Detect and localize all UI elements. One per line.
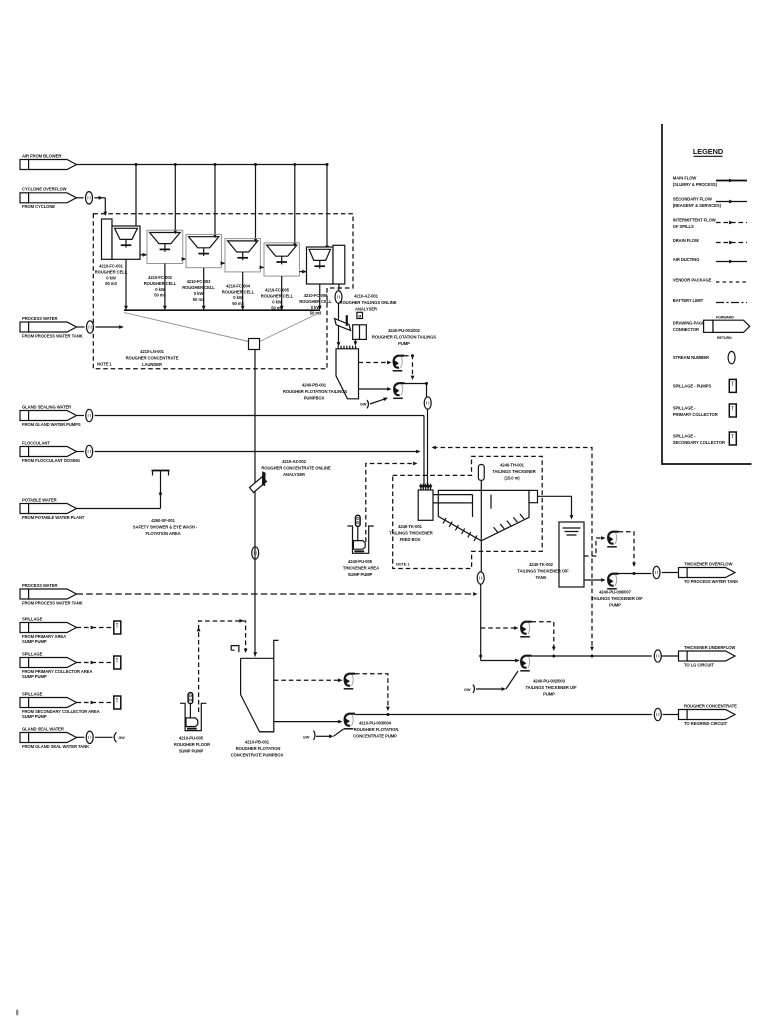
- svg-text:BATTERY LIMIT: BATTERY LIMIT: [673, 298, 704, 303]
- svg-text:FROM POTABLE WATER PLANT: FROM POTABLE WATER PLANT: [22, 515, 85, 520]
- label: pumpbox 4210-PB-001: [231, 740, 284, 758]
- svg-text:SPILLAGE - PUMPS: SPILLAGE - PUMPS: [673, 384, 712, 389]
- svg-text:FLOCCULANT: FLOCCULANT: [22, 440, 50, 445]
- svg-text:FLOTATION AREA: FLOTATION AREA: [145, 531, 180, 536]
- svg-text:PUMP: PUMP: [609, 603, 621, 608]
- tank: thickener O/F tank 4240-TK-002: [559, 522, 584, 587]
- svg-text:CONCENTRATE PUMP: CONCENTRATE PUMP: [353, 734, 397, 739]
- flotation cell 4210-FC-003: [186, 234, 221, 267]
- svg-text:GW: GW: [303, 736, 310, 740]
- svg-text:TO REGRIND CIRCUIT: TO REGRIND CIRCUIT: [684, 721, 727, 726]
- svg-text:ROUGHER CONCENTRATE: ROUGHER CONCENTRATE: [684, 703, 737, 708]
- analyser 4210-AZ-001 sampler: [335, 312, 367, 346]
- svg-text:FEED BOX: FEED BOX: [400, 537, 421, 542]
- svg-text:4240-TH-001: 4240-TH-001: [500, 463, 525, 468]
- flotation cell 4210-FC-006: [307, 247, 334, 284]
- wire: cyclone overflow to rougher feed box: [77, 192, 108, 216]
- tank: pumpbox 4240-PB-001: [336, 346, 359, 399]
- svg-text:50 m3: 50 m3: [105, 281, 117, 286]
- svg-text:FROM GLAND WATER PUMPS: FROM GLAND WATER PUMPS: [22, 422, 81, 427]
- legend row: stream number: [673, 351, 735, 363]
- svg-text:NOTE 1: NOTE 1: [97, 362, 112, 367]
- label: analyser 4210-AZ-001: [340, 294, 397, 312]
- svg-text:ROUGHER FLOTATION: ROUGHER FLOTATION: [354, 727, 399, 732]
- page connector flag: spillage 2: [20, 651, 92, 679]
- wire: air header from blower: [77, 163, 329, 250]
- page connector flag: process water 2: [20, 583, 83, 606]
- wire: cell concentrate drops to launder: [124, 259, 322, 310]
- thickener drive motor and shaft: [478, 465, 484, 541]
- wire: spillage dashed line 2: [77, 656, 121, 669]
- page connector flag: flocculant: [20, 440, 80, 463]
- page connector flag: thickener underflow out: [679, 645, 736, 668]
- svg-text:4210-FC-004: 4210-FC-004: [226, 283, 251, 288]
- vendor package dashed boundary (flotation cells): [93, 214, 353, 369]
- page connector flag: cyclone overflow: [20, 187, 77, 210]
- svg-text:LAUNDER: LAUNDER: [142, 362, 162, 367]
- svg-text:4210-PU-003/004: 4210-PU-003/004: [359, 721, 392, 726]
- svg-text:ANALYSER: ANALYSER: [355, 307, 377, 312]
- tank: thickener feed box 4240-TK-001: [418, 484, 433, 521]
- svg-text:50 m3: 50 m3: [232, 301, 244, 306]
- label: O/F tank 4240-TK-002: [517, 562, 569, 580]
- tank: cell FC-006 discharge box: [333, 245, 345, 284]
- launder 4210-LN-001 collection header: [124, 310, 320, 349]
- svg-text:4240-TK-001: 4240-TK-001: [398, 524, 423, 529]
- svg-text:4210-LN-001: 4210-LN-001: [140, 349, 165, 354]
- svg-text:4240-PB-001: 4240-PB-001: [302, 383, 327, 388]
- svg-text:4260-SF-001: 4260-SF-001: [151, 518, 175, 523]
- sump pump 4240-PU-005 (thickener area): [347, 515, 373, 553]
- legend row: spillage pumps: [673, 379, 737, 392]
- svg-text:GLAND SEALING WATER: GLAND SEALING WATER: [22, 404, 71, 409]
- wire: thickener underflow leg: [477, 541, 519, 661]
- wire: spillage dashed line 3: [77, 696, 121, 709]
- scan speck bottom left: [16, 1010, 18, 1016]
- stream circle on concentrate line: [252, 547, 259, 559]
- svg-text:MAIN FLOW: MAIN FLOW: [673, 176, 697, 181]
- legend row: drawing page connector: [673, 316, 750, 340]
- wire: air drops into cells: [134, 165, 297, 247]
- svg-text:PROCESS WATER: PROCESS WATER: [22, 316, 57, 321]
- svg-text:DRAWING PAGE: DRAWING PAGE: [673, 321, 705, 326]
- svg-text:RETURN: RETURN: [717, 336, 732, 340]
- legend row: intermittent flow: [673, 218, 747, 230]
- svg-text:TO PROCESS WATER TANK: TO PROCESS WATER TANK: [684, 579, 738, 584]
- page connector flag: rougher concentrate out: [679, 703, 738, 726]
- pump 4210-PU-004 standby (dashed): [274, 674, 390, 711]
- svg-text:4210-PB-001: 4210-PB-001: [245, 740, 270, 745]
- svg-text:4210-FC-002: 4210-FC-002: [148, 275, 173, 280]
- svg-text:ROUGHER CELL: ROUGHER CELL: [261, 294, 294, 299]
- svg-text:4210-FC-006: 4210-FC-006: [304, 293, 329, 298]
- legend row: drain flow: [673, 238, 747, 244]
- wire: thickener overflow to O/F tank: [538, 496, 574, 519]
- wire: floor sump spill dashed to pumpbox: [197, 619, 248, 712]
- page connector flag: process water 1: [20, 316, 83, 339]
- svg-text:4240-PU-006/007: 4240-PU-006/007: [599, 590, 632, 595]
- wire: spillage dashed line 1: [77, 621, 121, 634]
- wire: gland seal water distribution: [77, 731, 126, 743]
- label: launder 4210-LN-001: [126, 349, 179, 367]
- page connector flag: potable water: [20, 497, 85, 520]
- svg-text:TAILINGS THICKENER U/F: TAILINGS THICKENER U/F: [526, 685, 577, 690]
- svg-text:ROUGHER FLOTATION TAILINGS: ROUGHER FLOTATION TAILINGS: [283, 389, 348, 394]
- svg-text:ROUGHER CONCENTRATE ONLINE: ROUGHER CONCENTRATE ONLINE: [261, 466, 331, 471]
- svg-text:THICKENER AREA: THICKENER AREA: [343, 566, 379, 571]
- page connector flag: spillage 3: [20, 691, 100, 719]
- svg-text:SECONDARY COLLECTOR: SECONDARY COLLECTOR: [673, 440, 725, 445]
- flotation cell 4210-FC-002: [147, 230, 183, 263]
- svg-text:4240-PU-002/003: 4240-PU-002/003: [533, 679, 566, 684]
- svg-text:PUMPBOX: PUMPBOX: [304, 396, 325, 401]
- svg-text:FROM CYCLONE: FROM CYCLONE: [22, 204, 55, 209]
- label: safety shower 4260-SF-001: [133, 518, 198, 536]
- label: cell 4210-FC-004: [222, 283, 255, 306]
- label: sump pump 4240-PU-005: [343, 559, 379, 577]
- page connector flag: gland sealing water: [20, 404, 81, 427]
- svg-text:SPILLAGE -: SPILLAGE -: [673, 406, 696, 411]
- svg-text:CONCENTRATE PUMPBOX: CONCENTRATE PUMPBOX: [231, 753, 284, 758]
- svg-text:AIR DUCTING: AIR DUCTING: [673, 257, 700, 262]
- label: cell 4210-FC-003: [182, 279, 215, 302]
- svg-text:ROUGHER CELL: ROUGHER CELL: [299, 299, 332, 304]
- gland water stub at U/F pump: [464, 671, 518, 693]
- vendor package dashed boundary (thickener): [393, 456, 543, 568]
- label: thickener 4240-TH-001: [492, 463, 535, 481]
- svg-text:4240-PU-001/002: 4240-PU-001/002: [388, 328, 421, 333]
- legend row: spillage secondary collector: [673, 432, 737, 445]
- label: pumpbox 4240-PB-001: [283, 383, 348, 401]
- wire: process water flush (dashed) to thickener underflow: [77, 592, 478, 596]
- svg-text:0 kW: 0 kW: [311, 305, 321, 310]
- svg-text:ROUGHER FLOTATION: ROUGHER FLOTATION: [236, 746, 281, 751]
- svg-text:SUMP PUMP: SUMP PUMP: [22, 674, 47, 679]
- pump 4240-PU-003 standby (dashed): [481, 622, 556, 651]
- page connector flag: thickener overflow out: [679, 561, 739, 584]
- wire: cell 6 tailings to analyser/pumpbox: [335, 284, 342, 347]
- svg-text:SPILLAGE: SPILLAGE: [22, 691, 43, 696]
- label: pumps 4240-PU-006/007: [591, 590, 643, 608]
- svg-text:M: M: [358, 314, 361, 318]
- wire: cell-to-cell flow arrows: [140, 253, 307, 274]
- wire: concentrate discharge to flag: [654, 708, 678, 720]
- svg-text:TO LG CIRCUIT: TO LG CIRCUIT: [684, 662, 714, 667]
- pump 4240-PU-007 standby (dashed): [584, 532, 636, 567]
- svg-text:ROUGHER FLOOR: ROUGHER FLOOR: [174, 742, 210, 747]
- wire: gland sealing water long header: [77, 409, 425, 487]
- svg-text:ROUGHER CELL: ROUGHER CELL: [95, 269, 128, 274]
- label: cell 4210-FC-006: [299, 293, 332, 316]
- svg-text:SUMP PUMP: SUMP PUMP: [22, 714, 47, 719]
- pump 4240-PU-001 duty: [359, 382, 432, 487]
- svg-text:4210-FC-003: 4210-FC-003: [187, 279, 212, 284]
- label: cell 4210-FC-001: [95, 264, 128, 287]
- svg-text:SECONDARY FLOW: SECONDARY FLOW: [673, 197, 712, 202]
- svg-text:FROM FLOCCULANT DOSING: FROM FLOCCULANT DOSING: [22, 458, 80, 463]
- svg-text:4210-AZ-002: 4210-AZ-002: [282, 459, 307, 464]
- svg-text:TANK: TANK: [536, 575, 547, 580]
- label: cell 4210-FC-002: [144, 275, 177, 298]
- label: sump pump 4210-PU-005: [174, 736, 210, 754]
- page connector flag: air from blower: [20, 153, 77, 169]
- wire: flocculant line to thickener: [77, 445, 421, 457]
- sump pump 4210-PU-005 (flotation area): [180, 693, 206, 731]
- label: pumps 4240-PU-001/002: [372, 328, 437, 346]
- flotation cell 4210-FC-001: [112, 226, 140, 259]
- svg-text:0 kW: 0 kW: [106, 275, 116, 280]
- analyser 4210-AZ-002 on concentrate line: [250, 471, 267, 492]
- wire: dilution recycle dashed line: [432, 446, 594, 651]
- tank: concentrate pumpbox 4210-PB-001: [241, 640, 279, 731]
- svg-text:POTABLE WATER: POTABLE WATER: [22, 497, 57, 502]
- svg-text:SAFETY SHOWER & EYE WASH -: SAFETY SHOWER & EYE WASH -: [133, 525, 198, 530]
- svg-text:CYCLONE OVERFLOW: CYCLONE OVERFLOW: [22, 187, 67, 192]
- svg-text:ROUGHER CONCENTRATE: ROUGHER CONCENTRATE: [126, 356, 179, 361]
- thickener overflow launder box: [529, 490, 538, 502]
- label: feed box 4240-TK-001: [389, 524, 432, 542]
- wire: overflow discharge to flag: [653, 566, 679, 578]
- label: cell 4210-FC-005: [261, 288, 294, 311]
- wire: underflow to flag: [654, 650, 678, 662]
- spill line from sump to thickener feed (dashed): [366, 462, 418, 542]
- thickener 4240-TH-001 tank body: [438, 490, 529, 541]
- svg-text:(REAGENT & SERVICES): (REAGENT & SERVICES): [673, 203, 722, 208]
- svg-text:FORWARD: FORWARD: [716, 316, 734, 320]
- pump 4240-PU-006 duty: [584, 572, 651, 589]
- svg-text:AIR FROM BLOWER: AIR FROM BLOWER: [22, 153, 61, 158]
- page connector flag: gland seal water: [20, 726, 89, 749]
- svg-text:SPILLAGE: SPILLAGE: [22, 651, 43, 656]
- label: analyser 4210-AZ-002: [261, 459, 331, 477]
- svg-text:50 m3: 50 m3: [193, 297, 205, 302]
- svg-text:THICKENER UNDERFLOW: THICKENER UNDERFLOW: [684, 645, 735, 650]
- svg-text:ROUGHER TAILINGS ONLINE: ROUGHER TAILINGS ONLINE: [340, 300, 397, 305]
- svg-text:TAILINGS THICKENER: TAILINGS THICKENER: [389, 531, 432, 536]
- svg-text:SUMP PUMP: SUMP PUMP: [22, 639, 47, 644]
- svg-text:PUMP: PUMP: [543, 692, 555, 697]
- svg-text:CONNECTOR: CONNECTOR: [673, 327, 699, 332]
- svg-text:FROM PROCESS WATER TANK: FROM PROCESS WATER TANK: [22, 333, 83, 338]
- legend box border: [662, 124, 752, 464]
- svg-text:TAILINGS THICKENER O/F: TAILINGS THICKENER O/F: [517, 569, 569, 574]
- thickener bridge and rake shafts: [433, 495, 491, 517]
- wire: rougher concentrate down-leg to pumpbox: [253, 350, 257, 657]
- svg-text:FROM GLAND SEAL WATER TANK: FROM GLAND SEAL WATER TANK: [22, 744, 89, 749]
- flotation cell 4210-FC-004: [225, 239, 260, 272]
- svg-text:4210-AZ-001: 4210-AZ-001: [354, 294, 379, 299]
- svg-text:4210-FC-001: 4210-FC-001: [99, 264, 124, 269]
- svg-text:LEGEND: LEGEND: [693, 147, 724, 156]
- svg-text:GW: GW: [119, 736, 126, 740]
- svg-text:ROUGHER CELL: ROUGHER CELL: [182, 285, 215, 290]
- pump 4240-PU-002 duty: [515, 655, 652, 671]
- gland water stub at concentrate pump: [303, 729, 344, 740]
- svg-text:SPILLAGE -: SPILLAGE -: [673, 434, 696, 439]
- svg-text:PUMP: PUMP: [398, 341, 410, 346]
- svg-text:INTERMITTENT FLOW: INTERMITTENT FLOW: [673, 218, 716, 223]
- vent gooseneck on pumpbox: [231, 646, 239, 653]
- svg-text:0 kW: 0 kW: [194, 291, 204, 296]
- svg-text:4240-TK-002: 4240-TK-002: [529, 562, 554, 567]
- svg-text:ROUGHER FLOTATION TAILINGS: ROUGHER FLOTATION TAILINGS: [372, 335, 437, 340]
- svg-text:TAILINGS THICKENER O/F: TAILINGS THICKENER O/F: [591, 596, 643, 601]
- svg-text:FROM PROCESS WATER TANK: FROM PROCESS WATER TANK: [22, 600, 83, 605]
- label: pumps 4210-PU-003/004: [353, 721, 398, 739]
- svg-text:ROUGHER CELL: ROUGHER CELL: [144, 281, 177, 286]
- svg-text:PROCESS WATER: PROCESS WATER: [22, 583, 57, 588]
- legend row: vendor package: [673, 278, 747, 283]
- gland water stub at tailings pump: [360, 396, 389, 408]
- svg-text:OF SPILLS: OF SPILLS: [673, 224, 694, 229]
- svg-text:4210-FC-005: 4210-FC-005: [265, 288, 290, 293]
- svg-text:SUMP PUMP: SUMP PUMP: [348, 572, 373, 577]
- svg-text:TAILINGS THICKENER: TAILINGS THICKENER: [492, 469, 535, 474]
- safety shower 4260-SF-001: [77, 471, 170, 509]
- svg-text:ROUGHER CELL: ROUGHER CELL: [222, 289, 255, 294]
- legend row: main flow: [673, 176, 747, 188]
- svg-text:(SLURRY & PROCESS): (SLURRY & PROCESS): [673, 182, 718, 187]
- svg-text:0 kW: 0 kW: [155, 287, 165, 292]
- svg-text:4210-PU-005: 4210-PU-005: [179, 736, 204, 741]
- pump 4210-PU-003 duty: [274, 713, 652, 729]
- svg-text:(15.0 m): (15.0 m): [504, 476, 520, 481]
- legend row: air ducting: [673, 257, 747, 263]
- svg-text:DRAIN FLOW: DRAIN FLOW: [673, 238, 699, 243]
- tank: rougher feed box of cell FC-001: [102, 219, 113, 259]
- svg-text:STREAM NUMBER: STREAM NUMBER: [673, 355, 709, 360]
- flotation cell 4210-FC-005: [264, 243, 299, 276]
- svg-text:0 kW: 0 kW: [272, 299, 282, 304]
- svg-text:THICKENER OVERFLOW: THICKENER OVERFLOW: [684, 561, 732, 566]
- svg-text:SPILLAGE: SPILLAGE: [22, 616, 43, 621]
- svg-text:GLAND SEAL WATER: GLAND SEAL WATER: [22, 726, 64, 731]
- page connector flag: spillage 1: [20, 616, 77, 644]
- label: pumps 4240-PU-002/003: [526, 679, 577, 697]
- svg-text:50 m3: 50 m3: [154, 293, 166, 298]
- svg-text:PRIMARY COLLECTOR: PRIMARY COLLECTOR: [673, 412, 718, 417]
- svg-text:VENDOR PACKAGE: VENDOR PACKAGE: [673, 278, 712, 283]
- legend row: battery limit: [673, 298, 747, 303]
- wire: process water to launder: [77, 321, 124, 333]
- svg-text:NOTE 1: NOTE 1: [396, 563, 409, 567]
- svg-text:GW: GW: [360, 403, 367, 407]
- svg-text:4240-PU-005: 4240-PU-005: [348, 559, 373, 564]
- svg-text:GW: GW: [464, 688, 471, 692]
- svg-text:0 kW: 0 kW: [233, 295, 243, 300]
- pump 4240-PU-002 standby (dashed): [359, 354, 415, 380]
- legend row: spillage primary collector: [673, 404, 737, 417]
- svg-text:SUMP PUMP: SUMP PUMP: [179, 749, 204, 754]
- svg-text:ANALYSER: ANALYSER: [283, 472, 305, 477]
- legend row: secondary flow: [673, 197, 747, 209]
